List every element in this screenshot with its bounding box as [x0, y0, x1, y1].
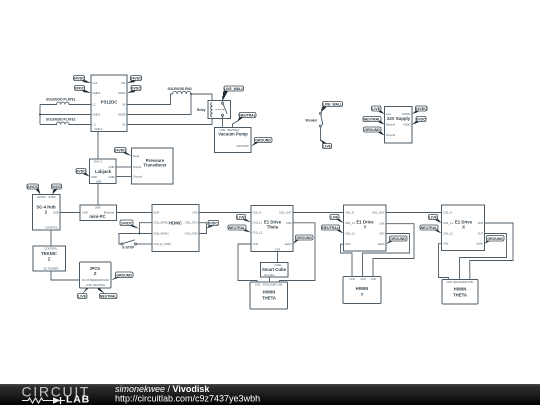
- svg-text:HIWIN: HIWIN: [454, 287, 467, 292]
- block HIWIN THETA: [250, 282, 288, 309]
- wire hub USB to mini-PC USB: [60, 212, 80, 214]
- block Pressure Transducer: [132, 148, 174, 184]
- svg-text:GND.1: GND.1: [94, 127, 103, 131]
- svg-text:CN2: CN2: [345, 242, 351, 246]
- svg-text:Y: Y: [361, 292, 364, 297]
- svg-text:Encoder: Encoder: [265, 273, 275, 277]
- flag GROUND (supply): [364, 127, 385, 136]
- svg-text:GROUND: GROUND: [116, 273, 132, 277]
- flag LIVE_WALL (relay): [223, 86, 245, 102]
- flag NEUTRAL (pump): [233, 113, 257, 128]
- svg-text:LIVE_WALL: LIVE_WALL: [323, 103, 344, 107]
- svg-text:CN4: CN4: [154, 211, 160, 215]
- svg-text:LIVE: LIVE: [323, 145, 331, 149]
- svg-text:24VDC: 24VDC: [27, 185, 39, 189]
- svg-text:GND: GND: [109, 165, 115, 169]
- svg-text:S4: S4: [122, 103, 126, 107]
- logo wire with resistor and diode: [22, 398, 65, 403]
- flag 0VDC (PS12DC left): [75, 86, 92, 94]
- svg-text:DC POWER: DC POWER: [82, 278, 97, 282]
- svg-text:X: X: [462, 225, 465, 230]
- svg-text:24VDC: 24VDC: [416, 107, 428, 111]
- svg-text:DAC-1: DAC-1: [94, 160, 103, 164]
- svg-text:Theta: Theta: [267, 225, 279, 230]
- svg-text:Labjack: Labjack: [95, 169, 112, 174]
- svg-text:CN1_L1: CN1_L1: [345, 221, 355, 225]
- svg-text:0VDC: 0VDC: [75, 87, 85, 91]
- flag GROUND (E1 X): [485, 236, 505, 244]
- svg-text:ENCODER: ENCODER: [263, 283, 276, 287]
- block TEKNIC Z: [33, 246, 66, 271]
- svg-text:GND5: GND5: [118, 113, 126, 117]
- wire to E-STOP: [119, 234, 140, 245]
- block IPC5 Z: [80, 262, 112, 288]
- svg-text:Earth: Earth: [285, 242, 292, 246]
- breaker switch: [306, 113, 323, 142]
- svg-text:SOLENOID END: SOLENOID END: [168, 87, 193, 91]
- svg-text:HIWIN: HIWIN: [263, 290, 276, 295]
- flag LIVE_WALL (breaker): [321, 102, 343, 113]
- wire GND5 up to coil out: [127, 94, 191, 115]
- svg-text:0VDC: 0VDC: [209, 222, 219, 226]
- svg-text:Output: Output: [133, 165, 141, 169]
- svg-text:CONTROL: CONTROL: [45, 226, 59, 230]
- svg-text:24VDC: 24VDC: [115, 149, 127, 153]
- svg-text:CN6: CN6: [478, 221, 484, 225]
- svg-text:GND1: GND1: [118, 91, 126, 95]
- svg-text:NEUTRAL: NEUTRAL: [239, 114, 257, 118]
- svg-text:CN1_GND: CN1_GND: [185, 231, 198, 235]
- wire HDMC CN2 to E1 Drive Theta CN1_N: [199, 212, 251, 214]
- wire S1 to relay coil bottom: [127, 119, 212, 125]
- svg-text:SOLENOID PLATE1: SOLENOID PLATE1: [46, 98, 76, 102]
- svg-text:CN2: CN2: [443, 242, 449, 246]
- svg-text:Y: Y: [364, 225, 367, 230]
- svg-text:24VDC: 24VDC: [121, 221, 133, 225]
- block mini-PC: [80, 205, 117, 221]
- svg-text:CN1_L2: CN1_L2: [345, 231, 355, 235]
- wire mini-PC Ethernet to HDMC CN4: [117, 212, 153, 214]
- wire E1 theta CN1_OUT to E1 Y CN1_N: [293, 212, 344, 214]
- svg-text:Feed: Feed: [133, 154, 140, 158]
- svg-text:Ground: Ground: [133, 175, 142, 179]
- flag NEUTRAL (E1 X): [420, 225, 442, 234]
- svg-text:LAB: LAB: [66, 394, 90, 405]
- svg-text:24VDC: 24VDC: [402, 112, 411, 116]
- svg-text:USB: USB: [82, 211, 88, 215]
- svg-text:24VDC: 24VDC: [37, 195, 46, 199]
- junction node: [190, 93, 192, 95]
- flag GROUND (E1 Y): [386, 236, 407, 244]
- svg-text:LIVE: LIVE: [372, 107, 380, 111]
- svg-text:CN6: CN6: [468, 280, 474, 284]
- svg-text:NEUTRAL: NEUTRAL: [229, 226, 247, 230]
- svg-text:CN7: CN7: [361, 277, 367, 281]
- svg-text:LIVE: LIVE: [220, 128, 226, 132]
- svg-text:CN1_N: CN1_N: [345, 211, 354, 215]
- svg-text:CN7: CN7: [379, 231, 385, 235]
- svg-text:CN1_L2: CN1_L2: [443, 231, 453, 235]
- wire E1 theta CN7 to Smart Cube: [277, 252, 279, 263]
- wire E1 theta CN6 to HIWIN CN6: [280, 223, 316, 282]
- svg-text:USB: USB: [95, 206, 101, 210]
- flag LIVE (IPC5): [78, 288, 89, 299]
- svg-text:GROUND: GROUND: [97, 278, 109, 282]
- svg-text:USB: USB: [53, 211, 59, 215]
- flag LIVE (E1 X): [429, 215, 442, 224]
- svg-text:LIVE: LIVE: [429, 216, 437, 220]
- wire S4 to coil: [127, 94, 173, 105]
- svg-text:Cable: Cable: [274, 263, 282, 267]
- wire E1 Y CN2 to HIWIN Y CN2: [341, 244, 353, 276]
- wire Labjack GND to Output: [116, 166, 132, 168]
- block SC-4 Hub: [33, 195, 61, 231]
- svg-text:Z: Z: [48, 257, 51, 262]
- svg-text:GND: GND: [91, 175, 97, 179]
- wire coil to relay coil top: [191, 94, 212, 101]
- svg-text:NEUTRAL: NEUTRAL: [227, 128, 240, 132]
- flag NEUTRAL (IPC5): [98, 288, 118, 299]
- block HIWIN THETA (X axis): [442, 280, 478, 305]
- block 24V Supply: [385, 107, 413, 144]
- svg-text:CN6: CN6: [277, 283, 283, 287]
- svg-text:L3: L3: [93, 123, 96, 127]
- wire PS12DC GND.1 to Labjack DAC-1: [97, 132, 99, 160]
- svg-text:NEUTRAL: NEUTRAL: [421, 226, 439, 230]
- svg-text:DC POWER: DC POWER: [44, 267, 59, 271]
- svg-text:CN1_L1: CN1_L1: [253, 220, 263, 224]
- svg-text:0VDC: 0VDC: [52, 185, 62, 189]
- junction dot: [39, 114, 41, 116]
- flag GROUND (pump): [251, 138, 272, 147]
- svg-text:NEUTRAL: NEUTRAL: [322, 226, 340, 230]
- svg-text:V11: V11: [121, 81, 126, 85]
- svg-text:L2: L2: [93, 103, 96, 107]
- inductor SOLENOID PLATE1 + wire: [40, 102, 91, 104]
- svg-text:Live: Live: [386, 112, 391, 116]
- block Vacuum Pump: [215, 128, 252, 153]
- block E1 Drive Y: [344, 205, 387, 251]
- svg-text:CN2: CN2: [253, 242, 259, 246]
- svg-text:24VDC: 24VDC: [130, 77, 142, 81]
- wire E1 X CN6 to HIWIN CN6: [470, 223, 513, 280]
- flag 0VDC (Labjack): [76, 169, 90, 177]
- flag 24VDC (transducer): [115, 148, 132, 157]
- svg-text:CN2: CN2: [255, 283, 261, 287]
- svg-text:mini-PC: mini-PC: [89, 214, 105, 219]
- svg-text:LIVE: LIVE: [331, 216, 339, 220]
- flag GROUND (E1 theta): [293, 235, 313, 244]
- svg-text:CN7: CN7: [275, 247, 281, 251]
- svg-text:CN6: CN6: [379, 222, 385, 226]
- svg-text:0VDC: 0VDC: [416, 118, 426, 122]
- flag 24VDC (PS12DC right top): [127, 76, 142, 84]
- svg-text:Z: Z: [94, 271, 97, 276]
- svg-text:CN1_N: CN1_N: [443, 211, 452, 215]
- svg-text:Neutral: Neutral: [386, 123, 395, 127]
- wire E1 Y CN6 to HIWIN Y CN6: [373, 224, 414, 277]
- relay RLY1: [197, 101, 231, 119]
- svg-text:Earth: Earth: [378, 242, 385, 246]
- svg-text:CN1_E_STOP: CN1_E_STOP: [154, 242, 172, 246]
- flag NEUTRAL (E1 theta): [228, 225, 251, 233]
- svg-text:NEUTRAL: NEUTRAL: [93, 283, 106, 287]
- wire E1 X CN7 to HIWIN ENCODER: [460, 234, 507, 280]
- flag LIVE (breaker bottom): [321, 140, 332, 149]
- svg-text:NEUTRAL: NEUTRAL: [100, 295, 118, 299]
- svg-text:NEUTRAL: NEUTRAL: [364, 118, 382, 122]
- flag LIVE (E1 theta): [237, 215, 252, 223]
- flag 0VDC (PS12DC right): [127, 86, 141, 94]
- block Labjack: [90, 159, 117, 184]
- svg-text:CN1_L2: CN1_L2: [253, 231, 263, 235]
- svg-text:Earth: Earth: [477, 242, 484, 246]
- svg-text:Ground: Ground: [386, 133, 395, 137]
- svg-text:Smart Cube: Smart Cube: [262, 267, 287, 272]
- svg-text:Transducer: Transducer: [143, 163, 166, 168]
- wire 24VDC bus to CN1_24VDC and CN6_24VDC: [140, 223, 153, 234]
- svg-text:GROUND: GROUND: [487, 237, 503, 241]
- svg-text:S1: S1: [122, 123, 126, 127]
- svg-text:CN1_N: CN1_N: [253, 211, 262, 215]
- svg-text:0VDC: 0VDC: [49, 195, 56, 199]
- wire left vertical bus: [39, 105, 41, 125]
- svg-text:V12: V12: [93, 81, 98, 85]
- svg-text:GROUND: GROUND: [390, 237, 406, 241]
- wire Labjack USB to mini-PC: [97, 184, 99, 206]
- flag LIVE (E1 Y): [330, 215, 344, 224]
- svg-text:CN6: CN6: [286, 221, 292, 225]
- flag 24VDC (PS12DC left top): [73, 76, 91, 84]
- svg-text:CN1_OUT: CN1_OUT: [279, 211, 292, 215]
- svg-text:USB: USB: [96, 180, 102, 184]
- svg-text:CN1_OUT: CN1_OUT: [372, 211, 385, 215]
- svg-text:24VDC: 24VDC: [73, 77, 85, 81]
- svg-text:0VDC: 0VDC: [403, 123, 410, 127]
- svg-text:Vacuum Pump: Vacuum Pump: [218, 131, 248, 136]
- svg-text:PS12DC: PS12DC: [101, 100, 118, 105]
- block HDMC: [152, 205, 199, 252]
- flag 0VDC (hub): [52, 184, 62, 195]
- flag NEUTRAL (E1 Y): [322, 225, 344, 234]
- block PS12DC: [91, 75, 127, 132]
- wire TEKNIC to IPC5: [51, 271, 80, 280]
- flag 0VDC (supply right): [412, 117, 426, 125]
- svg-text:THETA: THETA: [262, 296, 276, 301]
- inductor SOLENOID PLATE2 + wire: [40, 122, 91, 124]
- svg-text:E-STOP: E-STOP: [123, 246, 136, 250]
- svg-text:0VDC: 0VDC: [131, 87, 141, 91]
- wire E1 theta CN2 to HIWIN CN2: [238, 244, 257, 282]
- flag GROUND (IPC5): [111, 272, 133, 280]
- svg-text:GROUND: GROUND: [255, 139, 271, 143]
- block E1 Drive X: [442, 205, 485, 251]
- svg-text:CN2: CN2: [447, 280, 453, 284]
- wire GND3: [40, 114, 91, 116]
- svg-text:TEKNIC: TEKNIC: [41, 251, 57, 256]
- svg-text:GND: GND: [109, 175, 115, 179]
- flag 24VDC (hub): [27, 184, 41, 195]
- svg-text:CN1_24VDC: CN1_24VDC: [154, 221, 170, 225]
- svg-text:GND3: GND3: [93, 113, 101, 117]
- svg-text:CN2: CN2: [350, 277, 356, 281]
- svg-text:http://circuitlab.com/c9z7437y: http://circuitlab.com/c9z7437ye3wbh: [115, 394, 260, 404]
- wire Smart Cube Encoder to HIWIN ENCODER: [269, 277, 271, 282]
- svg-text:LIVE_WALL: LIVE_WALL: [224, 87, 245, 91]
- block Smart Cube: [261, 263, 289, 278]
- wire Labjack GND to Ground: [116, 176, 132, 178]
- svg-text:HDMC: HDMC: [169, 220, 182, 225]
- flag NEUTRAL (supply): [363, 117, 385, 125]
- svg-text:HIWIN: HIWIN: [356, 286, 369, 291]
- wire E1 X CN2 to HIWIN CN2: [439, 244, 449, 280]
- block E1 Drive Theta: [251, 206, 293, 252]
- svg-text:CN6_24VDC: CN6_24VDC: [154, 231, 170, 235]
- svg-text:Ethernet: Ethernet: [104, 211, 114, 215]
- junction dot: [139, 233, 141, 235]
- switch E-STOP: [121, 240, 152, 250]
- svg-text:GND2: GND2: [93, 91, 101, 95]
- flag 24VDC (E-STOP feed): [120, 220, 140, 229]
- svg-text:Breaker: Breaker: [306, 119, 319, 123]
- flag 0VDC (HDMC): [207, 221, 219, 229]
- flag LIVE (supply): [372, 106, 385, 114]
- svg-text:GROUND: GROUND: [296, 236, 312, 240]
- wire E1 Y CN7 to HIWIN Y CN7: [363, 234, 410, 277]
- svg-text:SOLENOID PLATE2: SOLENOID PLATE2: [46, 118, 76, 122]
- wire hub CONTROL to TEKNIC: [50, 230, 52, 246]
- svg-text:LIVE: LIVE: [86, 283, 92, 287]
- svg-text:Relay: Relay: [197, 108, 206, 112]
- logo diode: [53, 397, 61, 404]
- svg-text:CONTROL: CONTROL: [44, 247, 58, 251]
- svg-text:24V Supply: 24V Supply: [387, 116, 411, 121]
- svg-text:GROUND: GROUND: [364, 128, 380, 132]
- svg-text:CN1_STN: CN1_STN: [185, 221, 197, 225]
- svg-text:LIVE: LIVE: [237, 216, 245, 220]
- block HIWIN Y: [343, 277, 381, 304]
- svg-text:CN6: CN6: [371, 277, 377, 281]
- svg-text:CN1_L1: CN1_L1: [443, 221, 453, 225]
- svg-text:CN7: CN7: [478, 231, 484, 235]
- svg-text:LIVE: LIVE: [78, 295, 86, 299]
- svg-text:THETA: THETA: [453, 293, 467, 298]
- wires HDMC right to 0VDC: [199, 223, 207, 234]
- svg-text:simonekwee / Vivodisk: simonekwee / Vivodisk: [115, 384, 210, 394]
- flag 24VDC (supply right): [412, 106, 427, 114]
- svg-text:0VDC: 0VDC: [76, 170, 86, 174]
- svg-text:CN2: CN2: [192, 211, 198, 215]
- inductor SOLENOID END: [173, 91, 191, 94]
- wire relay to vacuum pump: [222, 119, 224, 128]
- svg-text:ENCODER: ENCODER: [454, 280, 467, 284]
- footer bar: [0, 384, 540, 405]
- wire E1 Y CN1_OUT to E1 X CN1_N: [386, 212, 442, 214]
- svg-text:GROUND: GROUND: [237, 144, 249, 148]
